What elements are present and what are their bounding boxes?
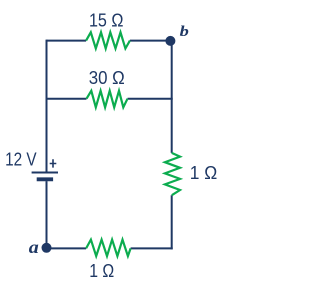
svg-text:a: a xyxy=(29,237,39,257)
svg-text:30 Ω: 30 Ω xyxy=(89,68,125,88)
svg-text:b: b xyxy=(180,24,190,40)
svg-text:1 Ω: 1 Ω xyxy=(89,261,114,281)
svg-text:1 Ω: 1 Ω xyxy=(190,163,218,183)
svg-text:12 V: 12 V xyxy=(5,150,37,170)
svg-text:15 Ω: 15 Ω xyxy=(89,11,124,31)
